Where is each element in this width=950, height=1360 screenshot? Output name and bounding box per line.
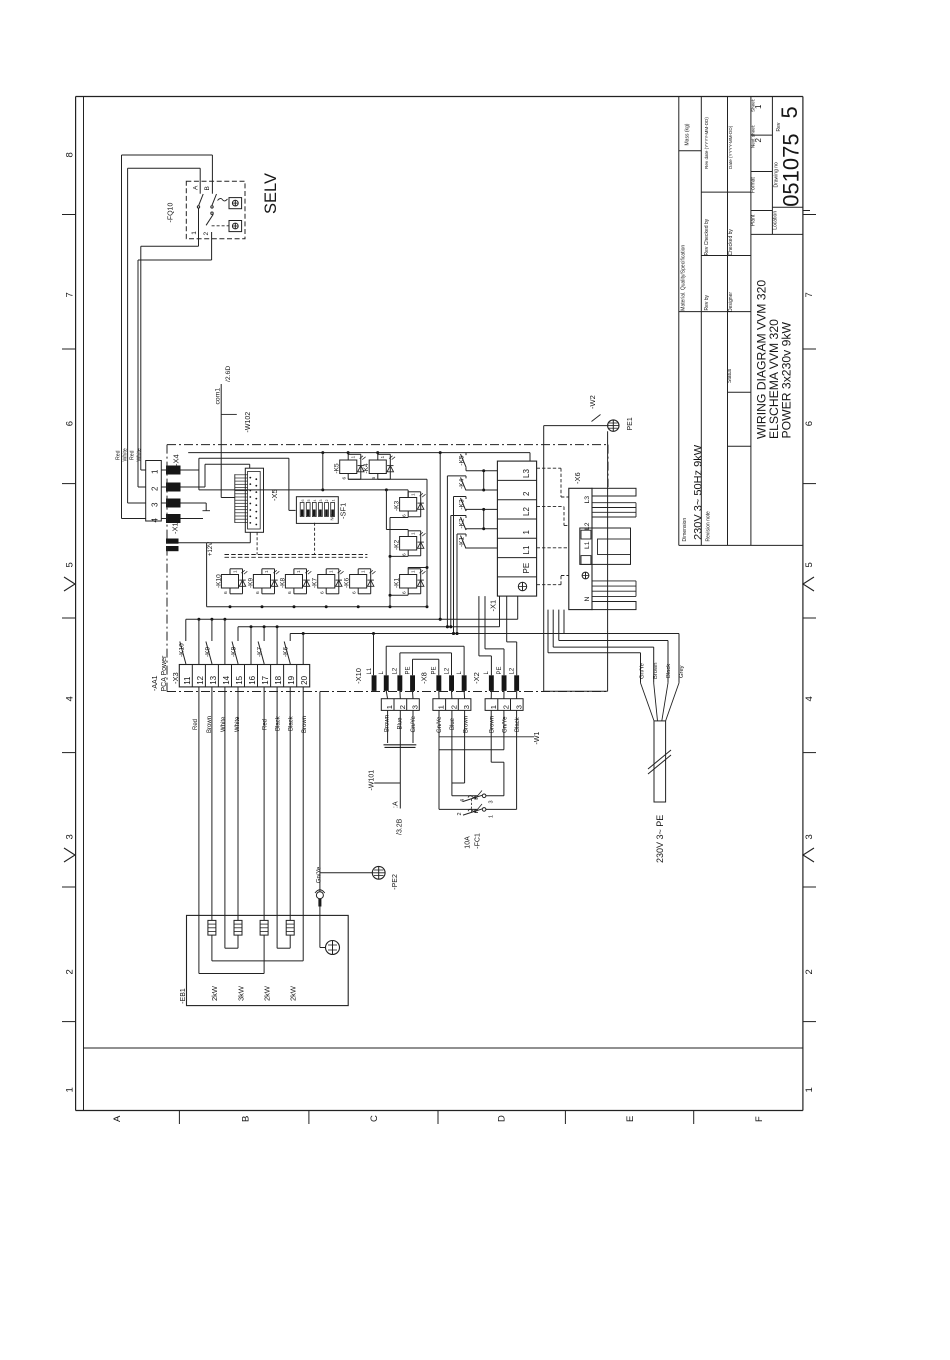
bus L3 lower — [290, 633, 564, 635]
svg-text:-EB1: -EB1 — [180, 988, 187, 1004]
svg-text:L2: L2 — [522, 507, 531, 516]
breaker FC1 release arrows — [475, 791, 482, 800]
svg-text:12: 12 — [196, 675, 205, 684]
wire X10 L1 from bus — [373, 634, 375, 676]
svg-text:Black: Black — [289, 715, 295, 731]
svg-text:Blue: Blue — [398, 717, 404, 730]
svg-text:-X2: -X2 — [472, 672, 481, 684]
wire K3 contact feed — [454, 496, 467, 498]
svg-text:L2: L2 — [510, 667, 516, 674]
svg-text:PE: PE — [405, 666, 411, 674]
svg-text:Rev: Rev — [776, 122, 782, 131]
svg-text:Blue: Blue — [450, 717, 456, 730]
FQ10 indicator box 2 — [229, 221, 242, 232]
svg-text:4: 4 — [65, 696, 76, 701]
svg-text:4: 4 — [460, 799, 466, 802]
svg-text:Rev by: Rev by — [704, 294, 710, 310]
svg-text:Format: Format — [750, 177, 756, 193]
wire to K3 coil — [407, 490, 409, 498]
svg-text:4: 4 — [313, 500, 317, 502]
FQ10 indicator box 1 — [229, 198, 242, 209]
wire earth bond — [439, 749, 504, 751]
svg-text:-K5: -K5 — [334, 463, 341, 474]
svg-text:Gn/Ye: Gn/Ye — [640, 663, 646, 679]
wire SF1 dashed drop — [314, 523, 316, 555]
svg-text:Location: Location — [773, 211, 779, 230]
svg-text:-W101: -W101 — [369, 770, 376, 791]
breaker FC1 trip link — [471, 799, 473, 812]
svg-text:Gn/Ye: Gn/Ye — [503, 716, 509, 733]
svg-text:230V 3~ PE: 230V 3~ PE — [655, 815, 665, 863]
relay coil -K9 — [253, 575, 270, 589]
svg-text:Mass (kg): Mass (kg) — [685, 123, 691, 145]
svg-text:3: 3 — [65, 834, 76, 839]
relay contact -K1 — [465, 534, 467, 537]
svg-text:11: 11 — [183, 676, 192, 685]
wire K5 K4 coil bottoms — [348, 478, 427, 480]
svg-text:/3.2B: /3.2B — [397, 818, 404, 835]
svg-text::A: :A — [393, 801, 400, 808]
svg-text:-K1: -K1 — [459, 537, 466, 548]
svg-text:Black: Black — [666, 664, 672, 678]
svg-text:2: 2 — [65, 969, 76, 974]
relay coil -K6 — [350, 575, 367, 589]
svg-text:7: 7 — [65, 292, 76, 297]
wire FQ10-1 to X4 — [198, 208, 200, 246]
connector X12 pins — [166, 539, 179, 544]
svg-text:-K2: -K2 — [394, 540, 401, 551]
svg-text:-K7: -K7 — [312, 578, 319, 589]
svg-text:-PE2: -PE2 — [392, 874, 399, 890]
wire jog X2 brown — [491, 761, 504, 763]
svg-text:Rev date (YYYY-MM-DD): Rev date (YYYY-MM-DD) — [704, 117, 709, 169]
svg-text:B: B — [204, 186, 211, 190]
heater contact -K8 — [237, 627, 239, 641]
svg-text:4: 4 — [151, 518, 160, 523]
svg-text:-K3: -K3 — [459, 499, 466, 510]
wires bus to X3 direct — [198, 619, 200, 664]
heater contact -K9 — [211, 619, 213, 641]
svg-text:Brown: Brown — [207, 716, 213, 733]
rail +12V dashed — [225, 554, 368, 556]
svg-text:-X12: -X12 — [171, 518, 180, 534]
sheet quarter mark right — [803, 848, 814, 862]
wire X4 pin2 to X5 — [181, 486, 206, 488]
svg-text:-K6: -K6 — [344, 578, 351, 589]
svg-text:6: 6 — [223, 591, 229, 594]
wire X5 bottom to +12V — [249, 532, 251, 543]
terminal block X1 — [497, 461, 536, 596]
heater element — [286, 920, 294, 935]
wire X4 pin4 stub — [181, 518, 204, 520]
wire PE ring around X6 — [544, 425, 608, 427]
svg-text:-W2: -W2 — [588, 395, 597, 409]
wire bus1 drop to X2 area — [517, 596, 519, 619]
svg-text:-X5: -X5 — [270, 489, 279, 501]
wire K2 contact feed — [451, 515, 466, 517]
relay coil -K7 — [318, 575, 335, 589]
cable marker W102 — [221, 413, 237, 415]
svg-text:1: 1 — [385, 705, 394, 709]
svg-text:Brown: Brown — [653, 663, 659, 679]
svg-text:L3: L3 — [584, 496, 591, 504]
wires X2 pins to plug — [490, 691, 492, 699]
relay coil -K4 — [369, 460, 386, 474]
heater element — [260, 920, 268, 935]
svg-text:1: 1 — [411, 570, 417, 573]
svg-text:6: 6 — [287, 591, 293, 594]
svg-text:Red: Red — [263, 719, 269, 730]
svg-text:Red: Red — [116, 450, 122, 460]
cable W2 body — [654, 721, 666, 802]
plug X6 blade group L3 L2 — [592, 502, 636, 504]
svg-text:N: N — [584, 597, 591, 602]
svg-text:1: 1 — [151, 469, 160, 474]
svg-text:6: 6 — [401, 591, 407, 594]
svg-text:-X10: -X10 — [354, 668, 363, 684]
svg-text:Brown: Brown — [464, 716, 470, 733]
wires into X4 pins — [141, 469, 146, 471]
svg-text:-K7: -K7 — [257, 647, 264, 658]
svg-text:2: 2 — [804, 969, 815, 974]
svg-text:Gn/Ye: Gn/Ye — [437, 716, 443, 733]
wire X12 +12V feed — [179, 542, 207, 544]
connector X4 — [146, 461, 162, 522]
wire Gn/Ye to PE2 — [319, 692, 321, 892]
svg-text:-K3: -K3 — [394, 501, 401, 512]
relay coil -K3 — [400, 498, 417, 512]
svg-text:PE: PE — [432, 666, 438, 674]
svg-text:16: 16 — [248, 675, 257, 684]
svg-text:4: 4 — [804, 696, 815, 701]
svg-text:6: 6 — [804, 421, 815, 426]
svg-text:-K10: -K10 — [179, 643, 186, 657]
svg-text:13: 13 — [209, 675, 218, 684]
svg-text:-AA1: -AA1 — [152, 675, 159, 691]
svg-text:-K9: -K9 — [205, 647, 212, 658]
svg-text:1: 1 — [437, 705, 446, 709]
wire K3 coil bottom — [407, 516, 409, 519]
wire to K2 coil — [385, 490, 387, 530]
terminal strip X3 — [179, 665, 309, 687]
grid ticks right edge — [803, 214, 816, 216]
svg-text:18: 18 — [274, 675, 283, 684]
wire supply Gn/Ye — [547, 610, 549, 653]
svg-text:3kW: 3kW — [237, 985, 246, 1001]
svg-text:L2: L2 — [584, 522, 591, 530]
svg-text:6: 6 — [301, 500, 305, 502]
svg-text:-X3: -X3 — [171, 672, 180, 684]
svg-text:-W1: -W1 — [534, 732, 541, 745]
svg-text:2: 2 — [325, 500, 329, 502]
bus L1 upper — [186, 618, 518, 620]
svg-text:A: A — [192, 185, 199, 190]
svg-text:Status: Status — [727, 368, 733, 383]
cable marker W1 — [439, 736, 534, 738]
heater element bottom links — [211, 935, 213, 961]
breaker FC1 input wires — [439, 808, 478, 810]
svg-text:L3: L3 — [522, 469, 531, 478]
svg-text:-K2: -K2 — [459, 518, 466, 529]
wire PE2 down to EB1 — [315, 890, 325, 893]
heater contact -K7 — [263, 627, 265, 641]
PE2 branch circle — [316, 892, 323, 899]
bus L2 middle — [238, 626, 500, 628]
switch FQ10 dashed box — [186, 181, 245, 239]
svg-text:Gn/Ye: Gn/Ye — [317, 866, 323, 883]
svg-text:-X6: -X6 — [573, 472, 582, 484]
svg-text:D: D — [497, 1115, 508, 1122]
svg-text:L1: L1 — [367, 667, 373, 674]
wire K4 contact feed — [447, 475, 466, 477]
svg-text:3: 3 — [319, 500, 323, 502]
relay coil -K8 — [285, 575, 302, 589]
svg-text:Designer: Designer — [728, 292, 734, 312]
svg-text:Black: Black — [276, 715, 282, 731]
svg-text:1: 1 — [264, 570, 270, 573]
svg-text:Brown: Brown — [385, 715, 391, 732]
FQ10 actuator link — [218, 198, 228, 200]
wire K1 coil top — [407, 568, 409, 569]
wires X8 pins to plug — [438, 691, 440, 699]
svg-text:2: 2 — [457, 812, 463, 815]
svg-text:6: 6 — [351, 591, 357, 594]
svg-text:SELV: SELV — [262, 173, 280, 214]
wire supply Brown — [552, 610, 554, 648]
svg-text:3: 3 — [411, 705, 420, 709]
svg-text:2: 2 — [522, 491, 531, 496]
svg-text:230V 3~ 50Hz 9kW: 230V 3~ 50Hz 9kW — [693, 444, 705, 540]
svg-text:5: 5 — [777, 106, 802, 118]
svg-text:6: 6 — [65, 421, 76, 426]
svg-text:8: 8 — [65, 152, 76, 157]
svg-text:/2.6D: /2.6D — [225, 366, 232, 382]
svg-text:B: B — [241, 1116, 252, 1122]
svg-text:Date (YYYY-MM-DD): Date (YYYY-MM-DD) — [728, 125, 733, 169]
svg-text:POWER 3x230v 9kW: POWER 3x230v 9kW — [780, 322, 794, 439]
svg-text:-X1: -X1 — [489, 600, 498, 612]
wire K2 coil top stub — [407, 530, 409, 531]
heater element — [234, 920, 242, 935]
svg-text:PCA Power: PCA Power — [161, 655, 168, 691]
FQ10 contact pole A — [199, 189, 201, 194]
svg-text:19: 19 — [287, 675, 296, 684]
earth PE2 — [320, 872, 372, 874]
svg-text:1: 1 — [351, 456, 357, 459]
svg-text:1: 1 — [361, 570, 367, 573]
wire FQ10-A loop — [127, 168, 129, 503]
svg-text:-K6: -K6 — [283, 647, 290, 658]
plug X6 centre block L1 — [580, 528, 631, 564]
svg-text:1: 1 — [489, 705, 498, 709]
svg-text:A: A — [112, 1115, 123, 1122]
wire loops X10-X8 — [399, 653, 401, 675]
breaker FC1 output wires — [486, 795, 504, 797]
svg-text:C: C — [369, 1115, 380, 1122]
svg-text:PE1: PE1 — [627, 417, 634, 430]
svg-text:2: 2 — [502, 705, 511, 709]
grid ticks left edge — [62, 214, 76, 216]
svg-text:White: White — [221, 716, 227, 732]
svg-text:com1: com1 — [215, 388, 222, 405]
relay contact -K3 — [465, 497, 467, 500]
X1 earth symbol — [518, 582, 526, 590]
svg-text:L2: L2 — [444, 667, 450, 674]
wire X4 pin1 Z-route — [181, 469, 199, 471]
svg-text:+12V: +12V — [208, 542, 214, 556]
svg-text:-K1: -K1 — [394, 578, 401, 589]
svg-text:6: 6 — [319, 591, 325, 594]
svg-text:Brown: Brown — [302, 716, 308, 733]
breaker FC1 pole 2 — [482, 808, 486, 812]
wire coil bottom bus — [207, 606, 427, 608]
relay coil -K10 — [221, 575, 238, 589]
wires X2 plug down — [490, 710, 492, 762]
svg-text:1: 1 — [804, 1087, 815, 1092]
svg-text:Revision note: Revision note — [706, 511, 712, 542]
PCB assembly AA1 dashed boundary — [166, 445, 168, 692]
svg-text:-K5: -K5 — [459, 455, 466, 466]
wire K1 contact feed — [457, 533, 466, 535]
plug X6 bottom bar — [592, 602, 636, 610]
svg-text:6: 6 — [401, 553, 407, 556]
wire supply Grey — [563, 610, 565, 634]
svg-text:20: 20 — [300, 675, 309, 684]
svg-text:3: 3 — [151, 502, 160, 507]
svg-text:1: 1 — [191, 231, 198, 235]
plug X6 top bar — [592, 488, 636, 496]
svg-text:2: 2 — [203, 232, 210, 236]
svg-text:L1: L1 — [522, 545, 531, 554]
wire X1 to X2 drops — [478, 596, 480, 656]
grid ticks bottom edge — [178, 1111, 180, 1125]
FQ10 mechanical dashed link — [212, 225, 229, 227]
wire com1 reference — [220, 384, 222, 498]
relay coil -K5 — [340, 460, 357, 474]
wire supply Black — [558, 610, 560, 641]
svg-text:NO: NO — [330, 513, 335, 520]
wires X3 to EB1 — [211, 687, 213, 921]
svg-text:5: 5 — [65, 562, 76, 567]
svg-text:-K4: -K4 — [459, 478, 466, 489]
svg-text:Checked by: Checked by — [728, 229, 734, 256]
svg-text:1: 1 — [296, 570, 302, 573]
cable W101 tail — [399, 747, 401, 808]
svg-text:L2: L2 — [393, 667, 399, 674]
heater contact -K10 — [185, 619, 187, 641]
wire jog X8 brown — [452, 782, 465, 784]
svg-text:Next sheet:: Next sheet: — [750, 125, 755, 148]
svg-text:7: 7 — [804, 292, 815, 297]
svg-text:Dimension: Dimension — [682, 518, 688, 542]
svg-text:E: E — [625, 1116, 636, 1122]
EB1 earth stud — [319, 941, 321, 948]
breaker FC1 pole 1 — [482, 794, 486, 798]
svg-text:17: 17 — [261, 675, 270, 684]
heater element — [208, 920, 216, 935]
svg-text:PE: PE — [497, 666, 503, 674]
svg-text:Brown: Brown — [490, 716, 496, 733]
plug X6 body — [569, 488, 592, 609]
wire top rail X4 to X1 — [188, 452, 530, 454]
svg-text:PE: PE — [522, 563, 531, 574]
wire contact pair links — [483, 471, 485, 490]
svg-text:5: 5 — [307, 500, 311, 502]
svg-text:L1: L1 — [584, 541, 591, 549]
svg-text:051075: 051075 — [779, 133, 804, 206]
svg-text:-K9: -K9 — [248, 578, 255, 589]
connector X5 — [245, 468, 263, 532]
svg-text:15: 15 — [235, 675, 244, 684]
svg-text:2: 2 — [449, 705, 458, 709]
svg-text:-FQ10: -FQ10 — [168, 203, 175, 223]
wires X8 plug down — [438, 710, 440, 809]
svg-text:Black: Black — [515, 716, 521, 732]
svg-text:1: 1 — [411, 493, 417, 496]
svg-text:Plant: Plant — [750, 214, 756, 226]
svg-text:2kW: 2kW — [263, 985, 272, 1001]
FQ10 contact pole B — [211, 189, 213, 194]
dashed link X1 PE to X6 — [537, 584, 561, 586]
svg-text:-SF1: -SF1 — [339, 503, 348, 519]
svg-text:-X8: -X8 — [420, 672, 429, 684]
wire FQ10-B loop — [121, 155, 123, 519]
svg-text:-X4: -X4 — [172, 454, 181, 466]
svg-text:2kW: 2kW — [289, 985, 298, 1001]
wire K5 K4 coil top stubs — [347, 453, 349, 455]
svg-text:F: F — [754, 1116, 765, 1122]
svg-text:Rev Checked by: Rev Checked by — [704, 218, 710, 255]
wire K1 coil bottom — [407, 594, 409, 595]
svg-text:6: 6 — [255, 591, 261, 594]
relay contact -K5 — [465, 453, 467, 456]
cable W2 funnel — [641, 683, 655, 721]
svg-text:1: 1 — [331, 500, 335, 502]
wires X10 pins to plug — [386, 691, 387, 699]
relay contact -K4 — [465, 476, 467, 479]
svg-text:1: 1 — [754, 104, 763, 109]
wire K2 coil bottom — [407, 555, 409, 558]
svg-text:Red: Red — [130, 450, 136, 460]
svg-text:Gn/Ye: Gn/Ye — [411, 715, 417, 732]
X5 pin comb — [235, 474, 248, 476]
svg-text:3: 3 — [514, 705, 523, 709]
svg-text:1: 1 — [489, 815, 495, 818]
svg-text:-K10: -K10 — [216, 574, 223, 588]
svg-text:Grey: Grey — [679, 665, 685, 678]
svg-text:2: 2 — [754, 138, 763, 143]
svg-text:-K4: -K4 — [363, 463, 370, 474]
svg-text:1: 1 — [232, 570, 238, 573]
dip switch SF1 — [296, 497, 338, 524]
cable clamp W101 — [384, 744, 417, 746]
relay coil -K2 — [400, 537, 417, 551]
wire X4 pin3 stub — [181, 502, 207, 504]
svg-text:1: 1 — [411, 532, 417, 535]
svg-text:3: 3 — [489, 800, 495, 803]
svg-text:6: 6 — [401, 514, 407, 517]
svg-text:1: 1 — [329, 570, 335, 573]
svg-text:-FC1: -FC1 — [475, 833, 482, 849]
relay coil -K1 — [400, 575, 417, 589]
svg-text:2kW: 2kW — [210, 985, 219, 1001]
dashed link X1 L2 to X6 — [537, 506, 564, 508]
dashed link X1 L1 to X6 — [537, 547, 569, 549]
earth PE1 — [608, 420, 619, 431]
title block frame — [678, 97, 680, 546]
relay contact -K2 — [465, 516, 467, 519]
heater EB1 box — [187, 915, 349, 1005]
